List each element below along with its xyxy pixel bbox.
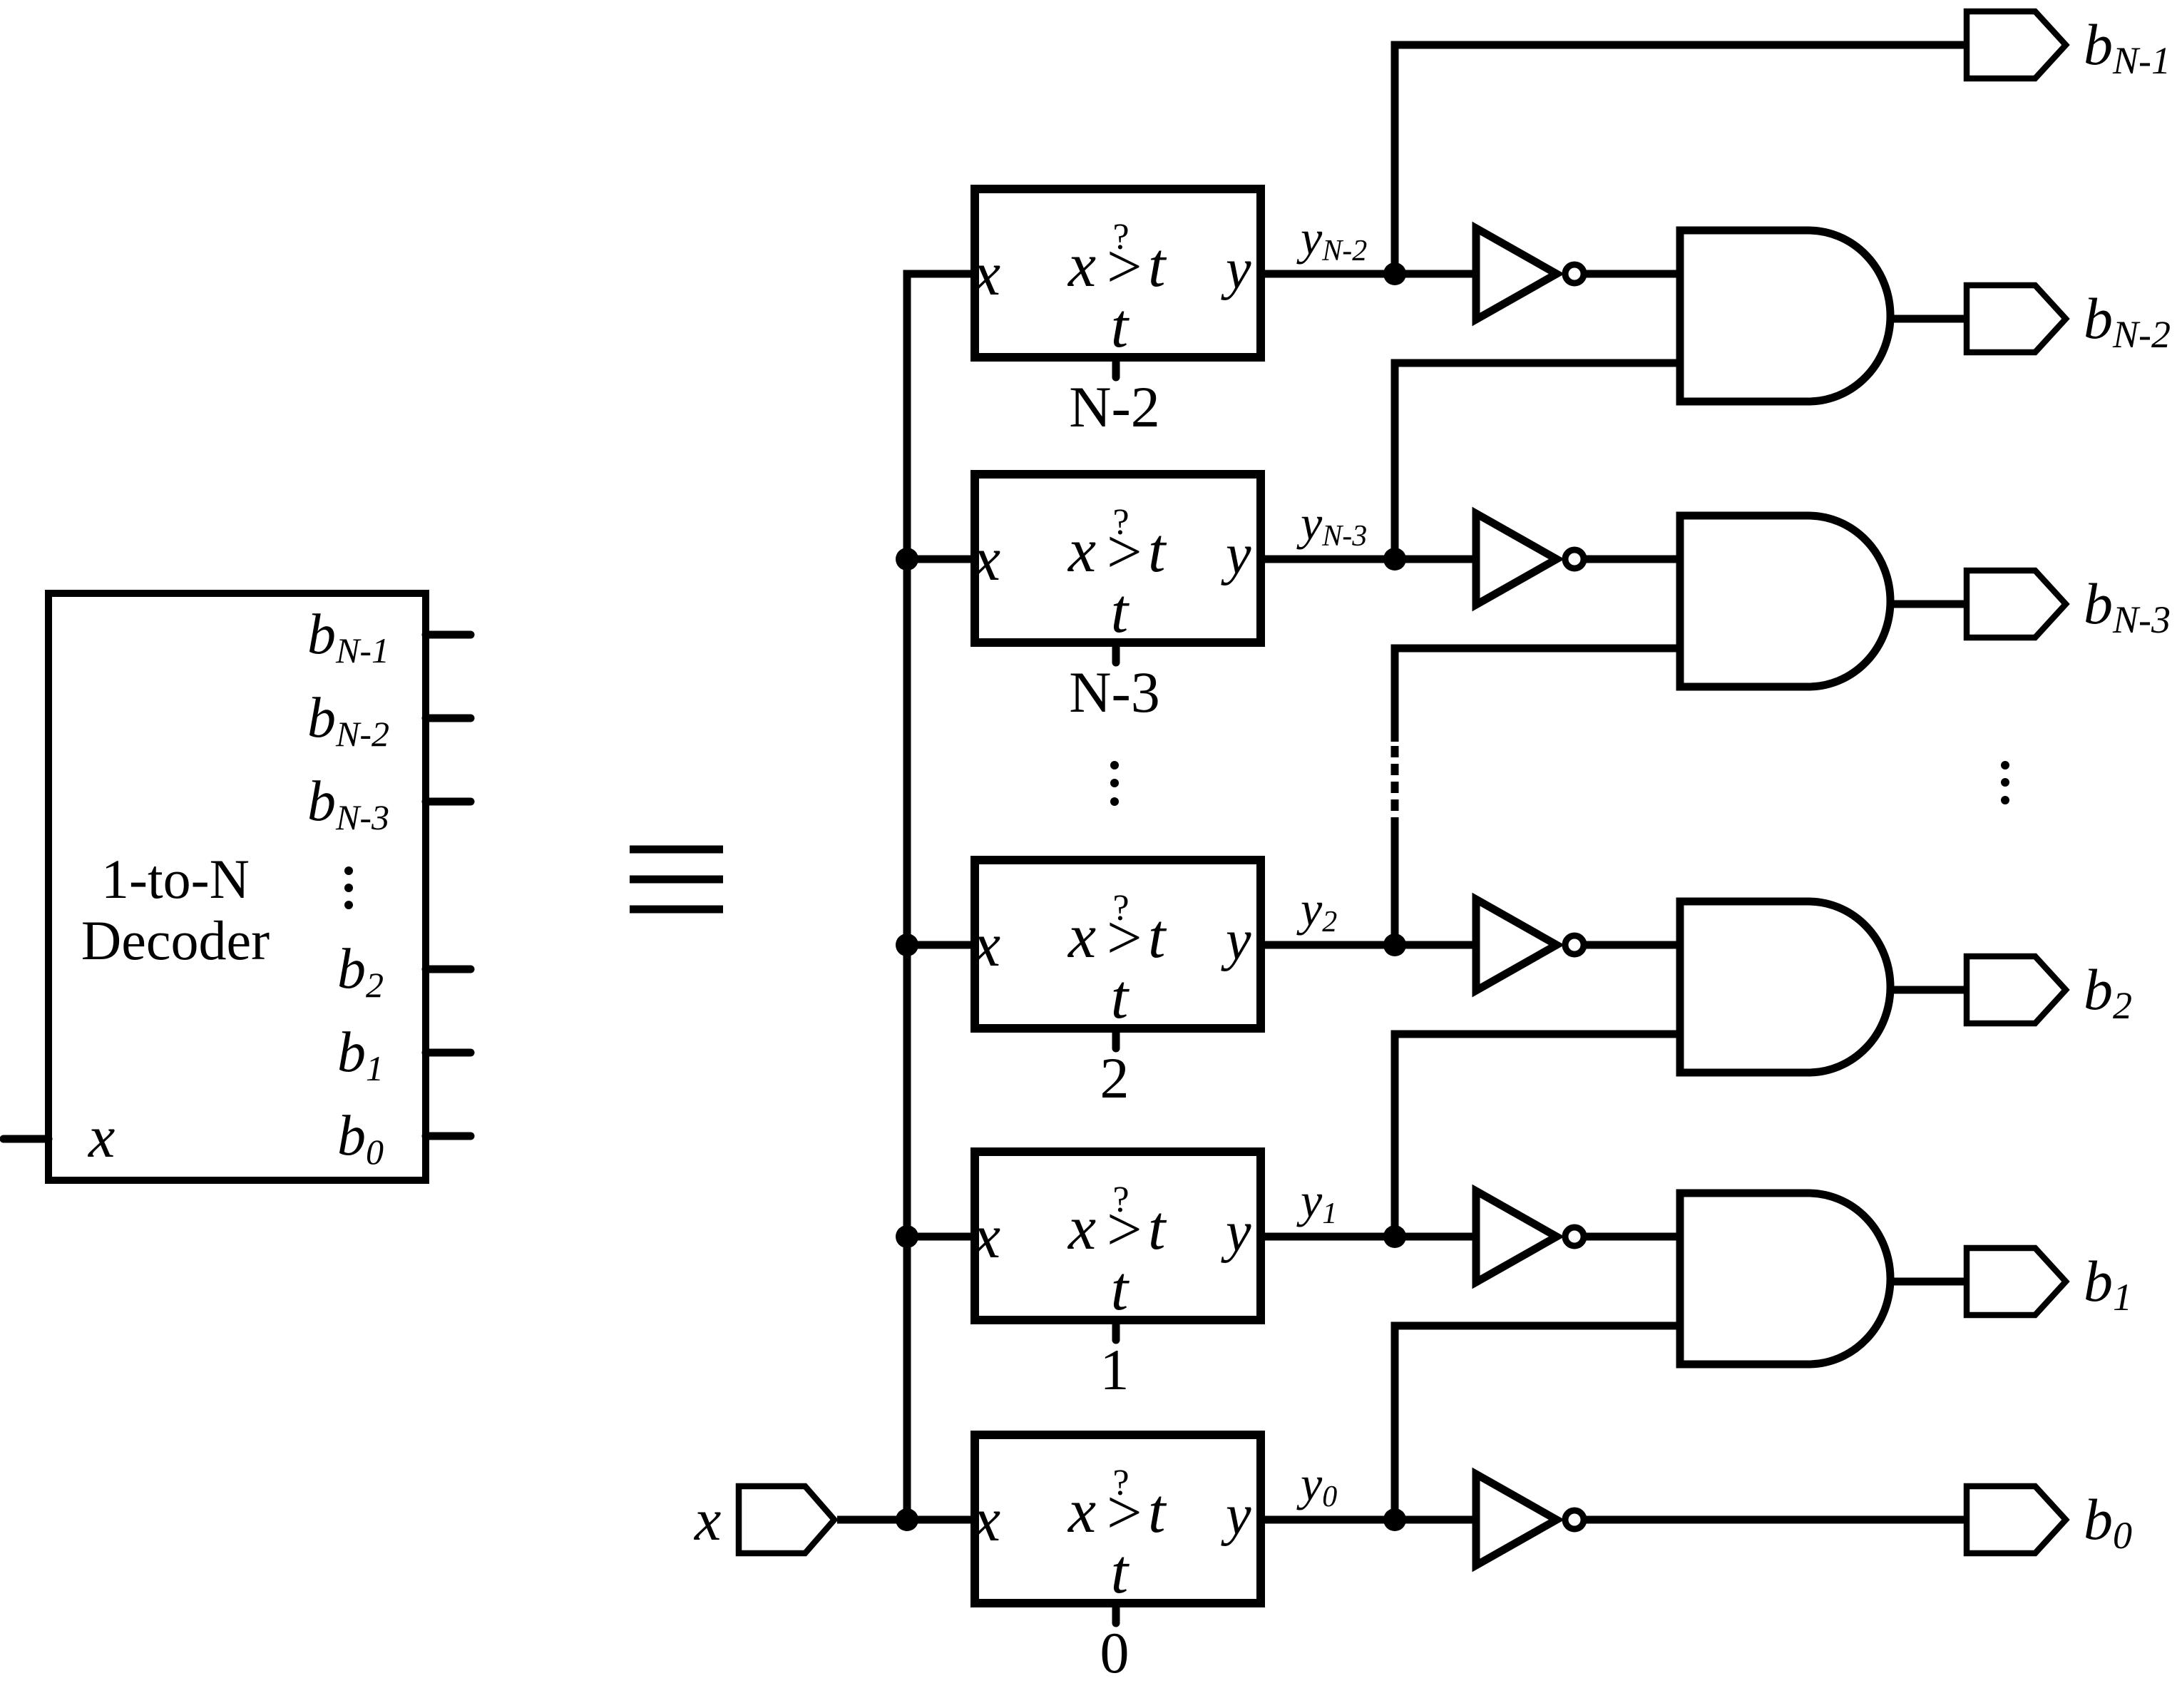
svg-text:x: x [1067, 231, 1096, 300]
comparator N-2 function label x>t with ? [1067, 217, 1167, 361]
output pentagon port b_N-3 [1967, 571, 2066, 638]
node: trunk junction at row N-3 [896, 548, 918, 571]
svg-text:t: t [1111, 963, 1130, 1032]
AND gate b_N-2 [1680, 230, 1890, 402]
output pentagon port b_N-1 [1967, 11, 2066, 78]
inverter (NOT gate) row N-3 [1476, 513, 1557, 605]
inverter (NOT gate) row 1 [1476, 1191, 1557, 1282]
wire: AND b_2 output to pentagon [1890, 986, 1967, 994]
svg-text:y: y [1221, 1201, 1251, 1264]
wire: comparator 2 output y to inverter [1261, 941, 1479, 949]
svg-text:t: t [1111, 1538, 1130, 1607]
wire: AND b_N-3 output to pentagon [1890, 600, 1967, 608]
svg-text:1-to-N: 1-to-N [101, 848, 250, 910]
comparator block N-2 (x>t) [975, 189, 1261, 357]
comparator block 1 (x>t) [975, 1152, 1261, 1320]
wire: inverter bubble to AND b_2 upper input [1584, 941, 1680, 949]
svg-text:t: t [1148, 516, 1167, 585]
AND gate b_1 [1680, 1193, 1890, 1364]
svg-text:x: x [693, 1487, 721, 1553]
decoder ellipsis dots [344, 866, 353, 909]
output pentagon port b_1 [1967, 1248, 2066, 1315]
svg-text:x: x [1067, 516, 1096, 585]
output pentagon port b_N-2 [1967, 285, 2066, 352]
wire: comparator 1 output y to inverter [1261, 1233, 1479, 1241]
wire: riser upper part into AND b_N-3 lower input [1395, 648, 1680, 742]
node: junction y_2 [1383, 934, 1406, 956]
decoder pin stub b_1 [426, 1049, 471, 1057]
svg-text:t: t [1111, 577, 1130, 646]
input pentagon port x [739, 1486, 834, 1553]
inverter (NOT gate) row 0 [1476, 1474, 1557, 1565]
wire: AND b_N-2 output to pentagon [1890, 315, 1967, 323]
node: trunk junction at row 0 [896, 1508, 918, 1531]
svg-text:x: x [971, 911, 1000, 980]
inverter (NOT gate) row 2 [1476, 899, 1557, 991]
wire: x pentagon to comparator 0 input [837, 1516, 979, 1524]
inverter bubble row N-2 [1565, 265, 1584, 283]
inverter bubble row 0 [1565, 1510, 1584, 1529]
svg-text:N-2: N-2 [1069, 374, 1160, 439]
svg-text:x: x [1067, 1477, 1096, 1546]
svg-text:0: 0 [1100, 1620, 1130, 1685]
svg-text:t: t [1148, 231, 1167, 300]
comparator N-3 threshold stub [1112, 643, 1120, 663]
svg-text:x: x [971, 1485, 1000, 1555]
node: junction y_N-2 [1383, 262, 1406, 285]
svg-text:t: t [1111, 292, 1130, 361]
inverter bubble row N-3 [1565, 550, 1584, 568]
wire: y_0 riser to AND b_1 lower input [1395, 1326, 1680, 1520]
output pentagon port b_0 [1967, 1486, 2066, 1553]
inverter bubble row 1 [1565, 1227, 1584, 1246]
wire: comparator N-3 output y to inverter [1261, 556, 1479, 563]
decoder pin stub b_N-2 [426, 715, 471, 722]
wire: y_2 riser (solid lower part) to AND b_N-3 lower input [1391, 829, 1399, 945]
inverter bubble row 2 [1565, 936, 1584, 954]
svg-text:x: x [971, 525, 1000, 594]
wire: inverter 0 bubble to b_0 pentagon [1584, 1516, 1967, 1524]
wire: AND b_1 output to pentagon [1890, 1278, 1967, 1286]
output-column ellipsis dots [2001, 761, 2009, 804]
svg-text:?: ? [1112, 502, 1129, 543]
inverter (NOT gate) row N-2 [1476, 228, 1557, 319]
mid-column ellipsis dots [1110, 761, 1119, 806]
svg-text:y: y [1221, 523, 1251, 586]
wire: trunk tap to comparator N-3 x input [907, 556, 979, 563]
svg-text:x: x [87, 1104, 115, 1170]
comparator 1 threshold stub [1112, 1320, 1120, 1340]
wire: comparator N-2 output y to inverter [1261, 270, 1479, 278]
comparator 0 function label x>t with ? [1067, 1463, 1167, 1607]
decoder block U1 (1-to-N Decoder) [48, 593, 426, 1180]
wire: trunk tap to comparator 1 x input [907, 1233, 979, 1241]
comparator 0 threshold stub [1112, 1603, 1120, 1623]
decoder input pin stub x [4, 1135, 48, 1143]
svg-text:x: x [1067, 902, 1096, 971]
node: junction y_1 [1383, 1225, 1406, 1248]
comparator N-2 threshold stub [1112, 357, 1120, 377]
svg-text:x: x [971, 1202, 1000, 1272]
svg-text:2: 2 [1100, 1045, 1130, 1110]
wire: inverter bubble to AND b_N-2 upper input [1584, 270, 1680, 278]
wire: inverter bubble to AND b_N-3 upper input [1584, 556, 1680, 563]
svg-text:?: ? [1112, 1463, 1129, 1503]
svg-text:y: y [1221, 1484, 1251, 1547]
wire: x trunk (vertical bus) [907, 274, 979, 1520]
wire: y_1 riser to AND b_2 lower input [1395, 1034, 1680, 1237]
comparator 1 function label x>t with ? [1067, 1180, 1167, 1324]
AND gate b_N-3 [1680, 516, 1890, 687]
decoder pin stub b_0 [426, 1132, 471, 1140]
svg-text:t: t [1148, 1194, 1167, 1263]
AND gate b_2 [1680, 901, 1890, 1073]
wire: trunk tap to comparator 2 x input [907, 941, 979, 949]
node: junction y_N-3 [1383, 548, 1406, 571]
comparator N-3 function label x>t with ? [1067, 502, 1167, 646]
comparator 2 threshold stub [1112, 1028, 1120, 1048]
wire: y_2 riser dashed continuation [1391, 742, 1399, 829]
svg-text:?: ? [1112, 217, 1129, 257]
svg-text:1: 1 [1100, 1337, 1130, 1402]
svg-text:y: y [1221, 238, 1251, 301]
decoder pin stub b_N-1 [426, 631, 471, 639]
svg-text:Decoder: Decoder [81, 909, 270, 971]
comparator block N-3 (x>t) [975, 474, 1261, 643]
wire: comparator 0 output y to inverter [1261, 1516, 1479, 1524]
node: trunk junction at row 1 [896, 1225, 918, 1248]
svg-text:y: y [1221, 909, 1251, 972]
node: trunk junction at row 2 [896, 934, 918, 956]
comparator 2 function label x>t with ? [1067, 888, 1167, 1032]
decoder pin stub b_2 [426, 966, 471, 973]
wire: inverter bubble to AND b_1 upper input [1584, 1233, 1680, 1241]
svg-text:N-3: N-3 [1069, 660, 1160, 725]
comparator block 0 (x>t) [975, 1435, 1261, 1603]
output pentagon port b_2 [1967, 956, 2066, 1023]
svg-text:x: x [1067, 1194, 1096, 1263]
decoder title text [81, 848, 270, 971]
wire: y_N-3 riser to AND b_N-2 lower input [1395, 363, 1680, 559]
decoder pin stub b_N-3 [426, 798, 471, 806]
svg-text:x: x [971, 240, 1000, 309]
svg-text:?: ? [1112, 1180, 1129, 1220]
equivalence symbol (triple bar) [630, 846, 723, 914]
svg-text:t: t [1148, 1477, 1167, 1546]
node: junction y_0 [1383, 1508, 1406, 1531]
svg-text:?: ? [1112, 888, 1129, 929]
svg-text:t: t [1148, 902, 1167, 971]
wire: y_N-2 riser to b_N-1 output [1395, 45, 1967, 274]
comparator block 2 (x>t) [975, 860, 1261, 1028]
svg-text:t: t [1111, 1254, 1130, 1324]
